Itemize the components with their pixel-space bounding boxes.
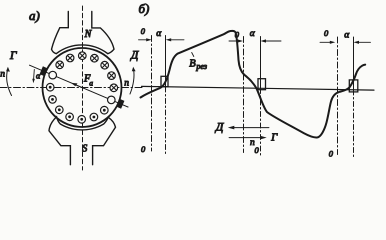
svg-text:В: В (189, 59, 196, 70)
svg-text:α: α (156, 29, 162, 39)
svg-text:α: α (344, 31, 350, 41)
svg-text:Г: Г (9, 50, 17, 62)
svg-text:0: 0 (141, 144, 146, 154)
svg-text:Д: Д (215, 120, 225, 134)
svg-text:S: S (82, 144, 87, 155)
svg-text:рез: рез (195, 62, 207, 71)
svg-text:п: п (250, 138, 255, 148)
svg-text:0: 0 (324, 28, 329, 38)
svg-text:б): б) (139, 1, 150, 16)
svg-text:0: 0 (255, 145, 260, 155)
svg-text:a: a (89, 79, 93, 88)
svg-text:0: 0 (141, 26, 146, 36)
svg-text:N: N (84, 29, 93, 40)
svg-text:Д: Д (130, 50, 139, 62)
svg-text:α: α (250, 29, 256, 39)
svg-text:0: 0 (329, 149, 334, 159)
svg-text:п: п (0, 70, 5, 80)
svg-text:п: п (124, 79, 129, 89)
svg-text:Г: Г (270, 133, 278, 144)
svg-text:а): а) (29, 8, 40, 23)
